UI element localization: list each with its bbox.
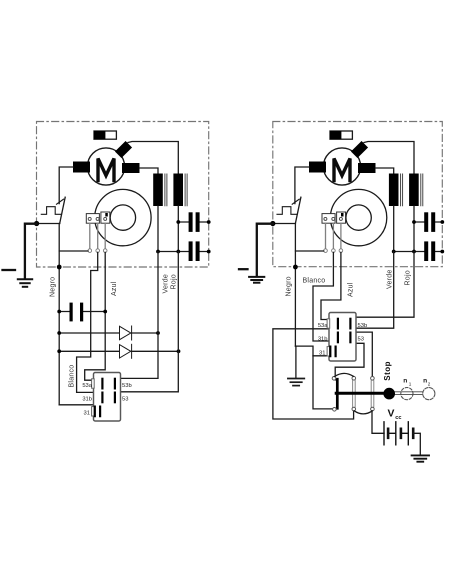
relay contact circle bottom-right: [371, 407, 375, 411]
capacitor C3 (left bottom): [59, 303, 105, 322]
junction node Verde top (left): [156, 250, 160, 254]
link Stop to n2 (double line): [395, 392, 423, 395]
connector X1 notch top (left): [92, 379, 95, 388]
stator terminal tab A (right): [322, 214, 335, 224]
svg-text:cc: cc: [395, 415, 401, 421]
connector X2 contact 53 (right): [349, 333, 351, 343]
winding L2 (left): [173, 174, 183, 207]
wire: winding L2 down through cap junctions (left): [177, 206, 179, 252]
junction node Rojo top (left): [176, 250, 180, 254]
switch S1 blade (left): [60, 197, 65, 223]
wire Negro to connector 31 (left): [59, 405, 100, 411]
diode D1 (left): [59, 326, 158, 340]
winding L1 (left): [153, 174, 163, 207]
wire: connector 53 bottom loop to stop contact (right): [335, 343, 364, 376]
junction Negro on border (right): [293, 265, 298, 270]
stator tab hole 2 (left): [96, 217, 99, 220]
earth ground (right outer): [249, 277, 264, 283]
chassis dash mark (right circuit): [239, 268, 248, 270]
relay slider bar (thick T, right): [335, 379, 338, 408]
wire Azul: stator terminal 3 to connector 53a (left): [85, 252, 106, 380]
wire: diagonal brush to winding L2 (left): [128, 142, 178, 174]
wire: left brush to switch (right): [295, 167, 309, 204]
connector block X2 outline (right): [329, 313, 356, 362]
junction node Verde top (right): [392, 250, 396, 254]
stator terminal tab A (left): [86, 214, 99, 224]
chassis border box (right circuit): [273, 122, 443, 267]
capacitor C2 (left lower): [158, 241, 209, 261]
wire: left brush to switch (left): [59, 167, 73, 204]
relay contact circle bottom-middle: [352, 407, 356, 411]
junction C3 left on Negro (left): [57, 310, 61, 314]
winding L4 (right): [409, 174, 419, 207]
wire Rojo vertical to connector 53 (left): [121, 252, 179, 392]
stator tab hole 3 (right): [339, 217, 342, 220]
thermal fuse F2 (right): [330, 131, 352, 139]
relay contact circle top-middle: [352, 376, 356, 380]
connector X2 notch bottom (right): [327, 347, 330, 356]
svg-text:53: 53: [122, 397, 128, 403]
connector X1 contact 31b (left): [101, 393, 103, 403]
connector X2 contact 53b (right): [349, 319, 351, 329]
stator lead wires (right, gray): [326, 223, 341, 249]
stator tab hole 3 (left): [104, 217, 107, 220]
earth ground (right inner): [288, 379, 304, 386]
stator inner ring (right): [346, 205, 371, 230]
wire Negro vertical (left): [58, 224, 60, 405]
svg-text:53: 53: [358, 337, 364, 343]
stator ring (left): [95, 189, 151, 245]
wire: ground stem below Negro junction (right): [295, 346, 297, 378]
stator lead terminal 1 (left): [88, 249, 92, 253]
wire: 31 branch down to parking contact (right): [313, 356, 332, 409]
stator lead terminal 2 (left): [96, 249, 100, 253]
svg-text:n: n: [423, 377, 427, 384]
svg-text:Stop: Stop: [383, 361, 392, 381]
brush (right motor, right side): [358, 163, 376, 173]
switch S2 cam profile (right): [277, 207, 297, 215]
connector X1 contact 53a (left): [101, 379, 103, 389]
wire Verde vertical to connector 53b (left): [121, 252, 159, 379]
wire Blanco: stator terminal 2 to connector 31b (right): [313, 252, 336, 341]
connector X2 contact 31b (right): [337, 333, 339, 343]
wire: chassis to earth ground (left, thick): [25, 224, 37, 279]
terminal n2 circle (dashed): [423, 388, 435, 400]
svg-text:31: 31: [319, 350, 325, 356]
stator tab mark (right): [341, 213, 344, 217]
capacitor C5 (right lower): [394, 241, 443, 261]
wire: winding L4 down through cap junctions (right): [413, 206, 415, 252]
wire Azul: stator terminal 3 to connector 53a (right): [321, 252, 341, 319]
wire Blanco: stator terminal 2 to connector 31b (left): [77, 252, 101, 392]
stator terminal tab B (right): [337, 212, 346, 223]
terminal n1 circle (dashed): [401, 388, 413, 400]
svg-text:31b: 31b: [82, 397, 92, 403]
connector X1 notch bottom (left): [92, 407, 95, 416]
wire Rojo vertical to connector 53b top (right): [356, 252, 414, 318]
earth ground (left outer): [18, 279, 32, 287]
svg-text:1: 1: [409, 382, 412, 387]
svg-text:Blanco: Blanco: [303, 278, 326, 285]
connector X2 contact 53a (right): [337, 319, 339, 329]
svg-text:53b: 53b: [358, 323, 368, 329]
wire: winding L3 down to node Verde (right): [393, 206, 395, 252]
svg-text:53a: 53a: [82, 383, 92, 389]
svg-text:Blanco: Blanco: [69, 365, 76, 388]
svg-text:Negro: Negro: [286, 276, 293, 296]
junction C4 chassis (right): [440, 220, 444, 224]
stator lead terminal 2 (right): [332, 249, 336, 253]
svg-text:Azul: Azul: [111, 281, 118, 296]
wire: winding L1 down to node Verde (left): [157, 206, 159, 252]
wire Negro to connector 31 and relay ground (right): [295, 346, 336, 356]
svg-text:Rojo: Rojo: [171, 274, 178, 289]
chassis dash mark (far left): [3, 269, 16, 271]
relay actuator rod to Stop knob (right): [336, 392, 384, 395]
stator tab hole 1 (left): [88, 217, 91, 220]
switch S1 contact tick (left): [57, 199, 64, 204]
svg-text:53b: 53b: [122, 383, 132, 389]
stator lead terminal 3 (left): [103, 249, 107, 253]
diode D2 (left): [59, 344, 178, 358]
wire: switch common to chassis (right): [273, 223, 296, 225]
junction D2 cathode on Rojo (left): [177, 349, 181, 353]
junction C1 chassis (left): [207, 220, 211, 224]
winding L4 core lines (right): [421, 174, 423, 206]
switch S2 contact tick (right): [292, 199, 299, 204]
junction Negro on border (left): [57, 265, 62, 270]
connector block X1 outline (left): [94, 373, 121, 422]
stator lead wires (left, gray): [90, 223, 105, 249]
brush (right motor, left side): [309, 162, 326, 173]
svg-text:Negro: Negro: [50, 277, 57, 297]
relay contact circle top-right: [371, 377, 375, 381]
junction on border (left switch): [34, 221, 39, 226]
stator tab hole 2 (right): [332, 217, 335, 220]
wire Verde vertical to connector 53b (right): [350, 252, 393, 329]
junction C4 left (right): [412, 220, 416, 224]
junction D1 anode on Negro (left): [57, 331, 61, 335]
motor letter M (right): [334, 159, 350, 181]
wire: diagonal brush to winding L4 (right): [364, 142, 414, 174]
stator ring (right): [330, 189, 386, 245]
svg-text:Rojo: Rojo: [405, 270, 412, 285]
wire: relay right rail to battery (right): [372, 411, 384, 434]
junction C2 chassis (left): [207, 250, 211, 254]
wire loop: park slider to connector 53a area (right): [273, 329, 354, 419]
wire: chassis to earth ground (right, thick): [257, 224, 273, 277]
capacitor C1 (left upper): [178, 212, 208, 232]
thermal fuse F1 (left): [94, 131, 116, 139]
motor letter M (left): [98, 159, 114, 181]
motor M (right): [323, 148, 360, 185]
stator tab mark (left): [105, 213, 108, 217]
svg-text:n: n: [403, 377, 407, 384]
wire: battery to earth ground (right bottom): [413, 433, 420, 455]
junction D1 cathode on Verde (left): [156, 331, 160, 335]
connector X2 notch top (right): [327, 319, 330, 328]
junction node Rojo top (right): [412, 250, 416, 254]
wire: right brush to winding L1 (left): [140, 168, 159, 174]
wire: connector 53 to relay contact rail (right): [350, 332, 373, 376]
stator lead terminal 1 (right): [324, 249, 328, 253]
svg-text:2: 2: [428, 382, 431, 387]
junction C5 chassis (right): [440, 250, 444, 254]
wire: stator terminal 1 to node Negro (left): [59, 250, 88, 252]
connector X1 contact 53b (left): [114, 379, 116, 389]
relay arc bottom: [354, 411, 372, 414]
junction on border (right switch): [270, 221, 275, 226]
stator tab hole 1 (right): [324, 217, 327, 220]
junction D2 anode on Negro (left): [57, 349, 61, 353]
stator lead terminal 3 (right): [339, 249, 343, 253]
brush terminal diagonal (left motor): [115, 141, 132, 158]
wire: switch common to chassis (left): [37, 223, 60, 225]
capacitor C4 (right upper): [414, 212, 442, 232]
connector X1 contact 53 (left): [114, 393, 116, 403]
junction C1 left (left): [176, 220, 180, 224]
svg-text:Verde: Verde: [387, 269, 394, 289]
winding L3 core lines (right): [401, 174, 403, 206]
stator inner ring (left): [110, 205, 135, 230]
relay arc top: [335, 373, 354, 376]
stator terminal tab B (left): [101, 212, 110, 223]
svg-text:31b: 31b: [318, 337, 328, 343]
brush (left motor, right side): [122, 163, 140, 173]
brush (left motor, left side): [73, 162, 90, 173]
chassis border box (left circuit): [37, 122, 209, 268]
svg-text:Azul: Azul: [348, 282, 355, 297]
relay rail middle: [353, 380, 356, 408]
Stop knob: [383, 388, 395, 400]
svg-text:53a: 53a: [318, 323, 328, 329]
motor M (left): [87, 148, 124, 185]
winding L3 (right): [389, 174, 399, 207]
svg-text:Verde: Verde: [163, 274, 170, 294]
wire: right brush to winding L3 (right): [376, 168, 394, 174]
relay rail right: [371, 380, 374, 408]
junction C3 right on Azul (left): [103, 310, 107, 314]
svg-text:31: 31: [84, 410, 90, 416]
switch S1 cam profile (left): [41, 207, 61, 215]
wire Negro vertical (right): [294, 224, 296, 347]
connector X1 contact 31 (left): [95, 407, 100, 417]
earth ground (battery): [412, 455, 429, 461]
winding L2 core lines (left): [185, 174, 187, 206]
relay contact circle top-left: [332, 377, 336, 381]
switch S2 blade (right): [295, 197, 301, 223]
connector X2 contact 31 (right): [330, 347, 335, 357]
brush terminal diagonal (right motor): [351, 141, 368, 158]
wire: stator terminal 1 to node Negro (right): [296, 250, 324, 252]
svg-text:V: V: [388, 409, 395, 420]
battery Vcc cells: [384, 422, 413, 445]
relay contact circle bottom-left: [333, 408, 337, 412]
winding L1 core lines (left): [165, 174, 167, 206]
